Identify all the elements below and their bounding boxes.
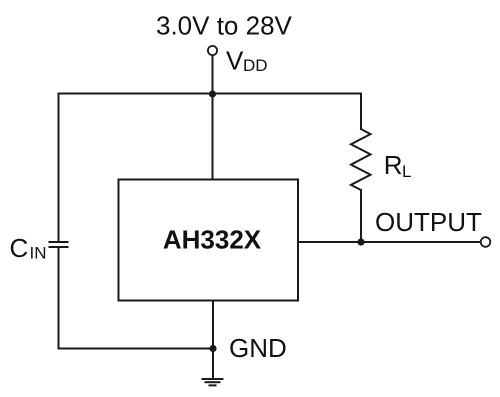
wire VDD terminal stub (212, 55, 214, 94)
resistor R_L zigzag (351, 129, 371, 190)
wire left rail lower (CIN bottom plate down) (58, 247, 60, 349)
svg-text:V: V (226, 46, 244, 76)
ground symbol (202, 379, 224, 385)
node GND junction (209, 345, 216, 352)
svg-text:DD: DD (243, 56, 268, 75)
svg-text:IN: IN (30, 244, 47, 263)
wire IC output to terminal (298, 241, 481, 243)
svg-text:R: R (384, 150, 403, 180)
node output junction (357, 238, 364, 245)
svg-text:L: L (402, 162, 411, 181)
svg-text:AH332X: AH332X (163, 225, 262, 255)
svg-text:OUTPUT: OUTPUT (375, 207, 482, 237)
terminal VDD open circle (208, 46, 217, 55)
wire bottom horizontal to GND node (59, 348, 214, 350)
terminal OUTPUT open circle (481, 237, 491, 247)
wire left rail upper (to CIN top plate) (58, 94, 60, 243)
label VDD (226, 46, 268, 76)
wire top horizontal rail (59, 93, 362, 95)
wire VDD junction to IC top (212, 94, 214, 180)
IC U1 AH332X box (119, 180, 299, 301)
wire resistor bottom to output node (360, 190, 362, 242)
label CIN (10, 233, 47, 263)
capacitor C_IN (50, 242, 68, 247)
svg-text:GND: GND (229, 333, 287, 363)
wire GND node to ground symbol (212, 349, 214, 379)
node VDD junction (209, 90, 216, 97)
svg-text:C: C (10, 233, 29, 263)
wire IC bottom to GND node (212, 301, 214, 349)
label RL (384, 150, 412, 181)
svg-text:3.0V to 28V: 3.0V to 28V (156, 11, 293, 41)
wire right rail down to resistor (360, 94, 362, 130)
